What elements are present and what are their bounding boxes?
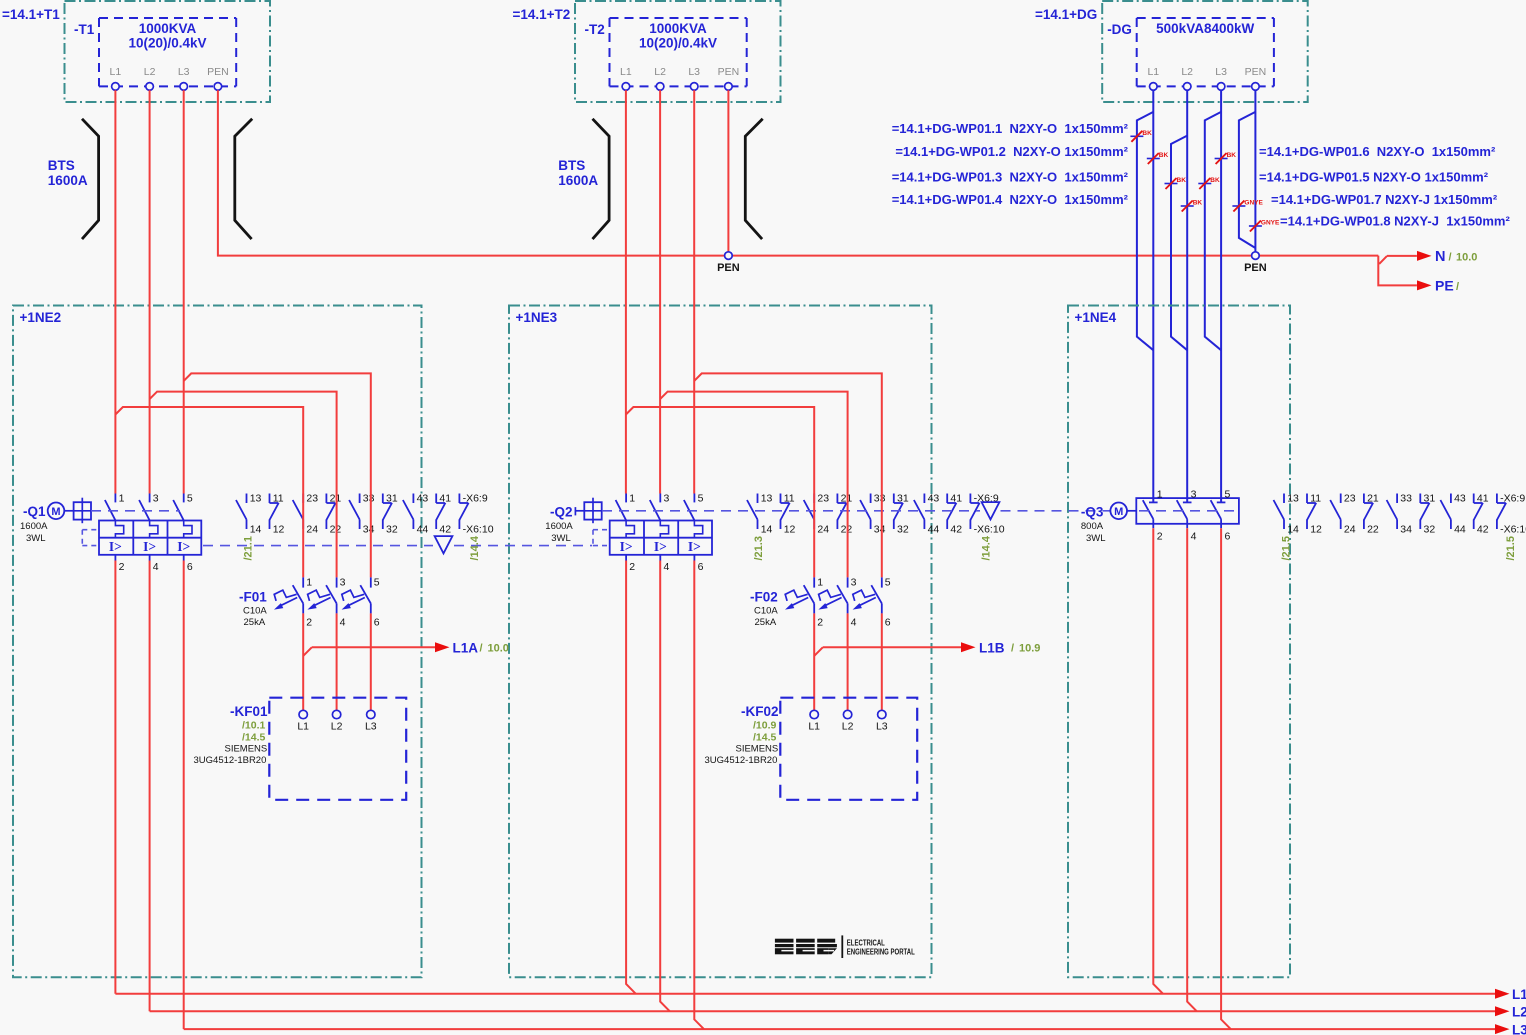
terminal: [299, 710, 307, 718]
aux contact 21/22: [325, 494, 327, 504]
svg-text:3WL: 3WL: [1086, 533, 1106, 544]
svg-text:14: 14: [250, 524, 262, 536]
svg-text:34: 34: [874, 524, 886, 536]
aux contact 11/12: [1306, 494, 1308, 504]
cable mark WP01.1 BK: [1147, 158, 1160, 160]
svg-text:/14.5: /14.5: [242, 732, 266, 744]
wire to N arrow: [1387, 255, 1417, 257]
svg-text:4: 4: [340, 617, 346, 629]
svg-text:12: 12: [273, 524, 285, 536]
svg-text:/14.5: /14.5: [753, 732, 777, 744]
svg-text:SIEMENS: SIEMENS: [736, 744, 779, 755]
svg-text:L1: L1: [110, 66, 122, 78]
svg-text:1: 1: [629, 493, 635, 505]
svg-text:34: 34: [363, 524, 375, 536]
svg-text:BK: BK: [1177, 177, 1187, 184]
svg-text:3WL: 3WL: [551, 533, 571, 544]
svg-text:GNYE: GNYE: [1261, 220, 1280, 227]
aux contact 23/24: [813, 494, 815, 504]
wire tap L1B: [814, 647, 823, 656]
svg-text:25kA: 25kA: [244, 617, 266, 628]
aux contact 23/24: [302, 494, 304, 504]
svg-text:/: /: [1456, 281, 1459, 293]
svg-text:1: 1: [817, 577, 823, 589]
svg-text:L1: L1: [297, 721, 309, 733]
motor drive M Q3: [1110, 503, 1127, 520]
svg-text:+1NE2: +1NE2: [20, 310, 62, 325]
aux contact 23/24: [1340, 494, 1342, 504]
aux contact 33/34: [1396, 494, 1398, 504]
svg-text:-X6:10: -X6:10: [1500, 524, 1526, 536]
wire Q2 pole2 to L1 bus: [626, 561, 636, 994]
trip dashed line Q2 to Q3: [602, 510, 980, 512]
svg-text:-F02: -F02: [750, 590, 778, 605]
wire Q3 pole6 to L3 bus: [1221, 528, 1231, 1029]
svg-text:3: 3: [1191, 489, 1197, 501]
svg-text:L2: L2: [144, 66, 156, 78]
svg-text:PEN: PEN: [717, 262, 740, 274]
svg-text:-Q2: -Q2: [550, 505, 573, 520]
svg-text:1: 1: [306, 577, 312, 589]
bus L3: [184, 1028, 1495, 1030]
svg-text:L3: L3: [688, 66, 700, 78]
svg-text:-X6:10: -X6:10: [463, 524, 494, 536]
svg-text:5: 5: [1225, 489, 1231, 501]
svg-text:22: 22: [330, 524, 342, 536]
svg-text:BTS: BTS: [558, 158, 585, 173]
svg-text:4: 4: [664, 561, 670, 573]
arrow L2: [1495, 1006, 1510, 1016]
svg-text:PEN: PEN: [718, 66, 740, 78]
bus L2: [150, 1010, 1495, 1012]
cable mark WP01.5 BK: [1198, 183, 1211, 185]
svg-text:12: 12: [784, 524, 796, 536]
svg-text:/: /: [1011, 643, 1014, 655]
breaker pole: [813, 577, 815, 587]
svg-text:BK: BK: [1193, 200, 1203, 207]
arrow L1: [1495, 989, 1510, 999]
svg-text:-X6:9: -X6:9: [1500, 493, 1525, 505]
svg-text:=14.1+DG-WP01.8 N2XY-J 1x150m: =14.1+DG-WP01.8 N2XY-J 1x150mm²: [1280, 214, 1510, 229]
svg-text:3: 3: [851, 577, 857, 589]
svg-text:24: 24: [1344, 524, 1356, 536]
svg-text:/14.4: /14.4: [981, 535, 993, 560]
svg-text:/21.5: /21.5: [1281, 536, 1293, 560]
svg-text:PEN: PEN: [1245, 66, 1267, 78]
panel +1NE4: [1068, 306, 1290, 978]
breaker pole: [370, 577, 372, 587]
svg-text:-T2: -T2: [585, 22, 605, 37]
wire N branch diagonal: [1379, 256, 1387, 264]
svg-text:L2: L2: [654, 66, 666, 78]
wire DG PEN parallel branch: [1239, 112, 1256, 248]
cable mark WP01.2 BK: [1130, 135, 1143, 137]
svg-text:2: 2: [306, 617, 312, 629]
aux contact 31/32: [1419, 494, 1421, 504]
svg-text:/21.5: /21.5: [1505, 536, 1517, 560]
aux contact 21/22: [836, 494, 838, 504]
svg-text:6: 6: [698, 561, 704, 573]
svg-text:L1: L1: [1512, 987, 1526, 1002]
terminal: [843, 710, 851, 718]
aux contact 13/14: [1283, 494, 1285, 504]
svg-text:4: 4: [851, 617, 857, 629]
svg-text:41: 41: [1477, 493, 1489, 505]
svg-text:24: 24: [817, 524, 829, 536]
trip dashed inside Q3: [1139, 510, 1239, 512]
svg-text:11: 11: [273, 493, 284, 505]
svg-text:-Q3: -Q3: [1081, 505, 1104, 520]
aux contact 13/14: [246, 494, 248, 504]
svg-text:L1B: L1B: [979, 641, 1005, 656]
svg-text:25kA: 25kA: [755, 617, 777, 628]
svg-text:L1A: L1A: [453, 641, 479, 656]
svg-text:23: 23: [817, 493, 829, 505]
wire Q1 pole4 to L2 bus: [149, 561, 151, 1012]
svg-text:33: 33: [1400, 493, 1412, 505]
svg-text:C10A: C10A: [243, 606, 267, 617]
Q3 pole 5/6: [1217, 501, 1226, 503]
svg-text:42: 42: [439, 524, 451, 536]
wires F01 to KF01: [302, 613, 304, 710]
svg-text:6: 6: [187, 561, 193, 573]
busbar trunking BTS1 1600A: [82, 119, 99, 239]
aux contact 41/42: [1473, 494, 1475, 504]
svg-text:BTS: BTS: [48, 158, 75, 173]
Q3 pole 1/2: [1149, 501, 1158, 503]
cable mark WP01.8 GNYE: [1249, 225, 1262, 227]
cable mark WP01.3 BK: [1181, 205, 1194, 207]
svg-text:500kVA8400kW: 500kVA8400kW: [1156, 21, 1254, 36]
svg-text:21: 21: [1367, 493, 1379, 505]
terminal: [878, 710, 886, 718]
cable mark WP01.7 GNYE: [1232, 205, 1245, 207]
wire tap L1A: [303, 647, 312, 656]
trip transfer symbol (nabla) NE2: [435, 536, 453, 553]
svg-text:I>: I>: [688, 539, 701, 554]
svg-text:L3: L3: [365, 721, 377, 733]
aux contact 13/14: [757, 494, 759, 504]
arrow N: [1417, 251, 1432, 261]
trip transfer symbol (nabla) NE3: [982, 502, 1000, 519]
wire DG L2 parallel branch: [1171, 136, 1187, 351]
svg-text:10(20)/0.4kV: 10(20)/0.4kV: [639, 36, 717, 51]
Q3 pole 3/4: [1183, 501, 1192, 503]
wire T1 PEN down and N bus: [218, 90, 1378, 255]
svg-text:L2: L2: [1512, 1005, 1526, 1020]
svg-text:5: 5: [187, 493, 193, 505]
wire Q3 pole2 to L1 bus: [1153, 528, 1163, 994]
aux contact -X6:9/-X6:10: [458, 494, 460, 504]
svg-text:/14.4: /14.4: [469, 535, 481, 560]
svg-text:2: 2: [119, 561, 125, 573]
svg-text:1600A: 1600A: [558, 173, 598, 188]
wire DG L3 main: [1220, 90, 1222, 502]
svg-text:I>: I>: [620, 539, 633, 554]
svg-text:5: 5: [885, 577, 891, 589]
svg-text:3: 3: [664, 493, 670, 505]
svg-text:-X6:9: -X6:9: [463, 493, 488, 505]
breaker pole: [336, 577, 338, 587]
svg-text:44: 44: [928, 524, 940, 536]
aux contact 31/32: [893, 494, 895, 504]
svg-text:=14.1+DG-WP01.5 N2XY-O 1x150mm: =14.1+DG-WP01.5 N2XY-O 1x150mm²: [1259, 170, 1489, 185]
arrow L3: [1495, 1024, 1510, 1034]
breaker pole: [302, 577, 304, 587]
svg-text:L3: L3: [876, 721, 888, 733]
svg-text:3WL: 3WL: [26, 533, 46, 544]
arrow L1A: [435, 642, 450, 652]
svg-text:23: 23: [306, 493, 318, 505]
svg-text:3: 3: [153, 493, 159, 505]
svg-text:I>: I>: [654, 539, 667, 554]
svg-text:L1: L1: [808, 721, 820, 733]
aux contact 11/12: [269, 494, 271, 504]
svg-text:1: 1: [1157, 489, 1163, 501]
svg-text:ENGINEERING PORTAL: ENGINEERING PORTAL: [847, 946, 915, 956]
svg-text:=14.1+DG-WP01.4 N2XY-O 1x150: =14.1+DG-WP01.4 N2XY-O 1x150mm²: [892, 192, 1129, 207]
circuit breaker Q3 800A 3WL: [1136, 498, 1239, 524]
svg-text:I>: I>: [177, 539, 190, 554]
aux contact 11/12: [780, 494, 782, 504]
svg-text:M: M: [1114, 506, 1123, 518]
svg-text:10.0: 10.0: [1456, 252, 1477, 264]
svg-text:21: 21: [841, 493, 853, 505]
svg-text:-X6:10: -X6:10: [974, 524, 1005, 536]
svg-text:+1NE3: +1NE3: [516, 310, 558, 325]
svg-text:BK: BK: [1159, 152, 1169, 159]
aux contact 33/34: [870, 494, 872, 504]
wire Q3 pole4 to L2 bus: [1187, 528, 1197, 1011]
cable mark WP01.4 BK: [1165, 183, 1178, 185]
svg-text:=14.1+T2: =14.1+T2: [513, 7, 571, 22]
breaker pole: [847, 577, 849, 587]
node PEN (T2): [725, 252, 733, 260]
svg-text:21: 21: [330, 493, 342, 505]
wire Q2 pole6 to L3 bus: [694, 561, 704, 1030]
svg-text:3UG4512-1BR20: 3UG4512-1BR20: [194, 755, 267, 766]
svg-text:42: 42: [1477, 524, 1489, 536]
terminal: [367, 710, 375, 718]
svg-text:=14.1+DG-WP01.7 N2XY-J 1x150mm: =14.1+DG-WP01.7 N2XY-J 1x150mm²: [1271, 192, 1498, 207]
svg-text:BK: BK: [1210, 177, 1220, 184]
svg-text:10.9: 10.9: [1019, 643, 1040, 655]
svg-text:33: 33: [874, 493, 886, 505]
wire Q1 pole2 to L1 bus: [114, 561, 116, 994]
wire DG PEN main: [1254, 90, 1256, 252]
trip dashed line Q1: [91, 510, 180, 512]
svg-text:PEN: PEN: [1244, 262, 1267, 274]
svg-text:23: 23: [1344, 493, 1356, 505]
aux contact 33/34: [359, 494, 361, 504]
svg-text:41: 41: [439, 493, 451, 505]
svg-text:41: 41: [950, 493, 962, 505]
svg-text:31: 31: [1424, 493, 1436, 505]
svg-text:43: 43: [928, 493, 940, 505]
svg-text:800A: 800A: [1081, 521, 1104, 532]
wire Q2 pole4 to L2 bus: [660, 561, 670, 1012]
svg-text:PEN: PEN: [207, 66, 229, 78]
wire T2 PEN down: [727, 90, 729, 255]
svg-text:/: /: [1449, 252, 1452, 264]
svg-text:2: 2: [817, 617, 823, 629]
svg-text:32: 32: [1424, 524, 1436, 536]
svg-text:L3: L3: [178, 66, 190, 78]
wire DG L2 main: [1186, 90, 1188, 502]
svg-text:4: 4: [153, 561, 159, 573]
svg-text:C10A: C10A: [754, 606, 778, 617]
svg-text:3UG4512-1BR20: 3UG4512-1BR20: [705, 755, 778, 766]
svg-text:13: 13: [1287, 493, 1299, 505]
svg-text:22: 22: [1367, 524, 1379, 536]
wire Q1 pole6 to L3 bus: [183, 561, 185, 1030]
svg-text:13: 13: [250, 493, 262, 505]
svg-text:1: 1: [119, 493, 125, 505]
arrow L1B: [961, 642, 976, 652]
wires F02 to KF02: [813, 613, 815, 710]
svg-text:33: 33: [363, 493, 375, 505]
svg-text:L3: L3: [1512, 1023, 1526, 1035]
svg-text:SIEMENS: SIEMENS: [225, 744, 268, 755]
svg-text:/21.1: /21.1: [243, 536, 255, 560]
svg-text:L2: L2: [1181, 66, 1193, 78]
aux contact 41/42: [946, 494, 948, 504]
svg-text:6: 6: [374, 617, 380, 629]
svg-text:GNYE: GNYE: [1244, 200, 1263, 207]
svg-text:BK: BK: [1142, 130, 1152, 137]
terminal: [810, 710, 818, 718]
svg-text:31: 31: [897, 493, 909, 505]
svg-text:/10.9: /10.9: [753, 720, 777, 732]
svg-text:L1: L1: [620, 66, 632, 78]
svg-text:13: 13: [761, 493, 773, 505]
svg-text:=14.1+T1: =14.1+T1: [2, 7, 60, 22]
aux contact -X6:9/-X6:10: [1496, 494, 1498, 504]
svg-text:L3: L3: [1215, 66, 1227, 78]
svg-text:I>: I>: [143, 539, 156, 554]
svg-text:43: 43: [1454, 493, 1466, 505]
svg-text:=14.1+DG-WP01.1 N2XY-O 1x150: =14.1+DG-WP01.1 N2XY-O 1x150mm²: [892, 121, 1129, 136]
svg-text:22: 22: [841, 524, 853, 536]
svg-text:-DG: -DG: [1107, 22, 1132, 37]
svg-text:-Q1: -Q1: [23, 504, 46, 519]
wires T2 to Q2 with branches to F02: [625, 90, 627, 493]
aux contact 31/32: [382, 494, 384, 504]
bus L1: [115, 993, 1495, 995]
svg-text:32: 32: [386, 524, 398, 536]
svg-text:14: 14: [761, 524, 773, 536]
svg-text:31: 31: [386, 493, 398, 505]
svg-text:1000KVA: 1000KVA: [139, 21, 197, 36]
svg-text:11: 11: [1310, 493, 1321, 505]
svg-text:/: /: [480, 643, 483, 655]
svg-text:5: 5: [698, 493, 704, 505]
svg-text:BK: BK: [1227, 152, 1237, 159]
svg-text:1600A: 1600A: [48, 173, 88, 188]
wires T1 to Q1 with branches to F01: [114, 90, 116, 493]
svg-text:6: 6: [1225, 531, 1231, 543]
svg-text:=14.1+DG: =14.1+DG: [1035, 7, 1097, 22]
svg-text:14: 14: [1287, 524, 1299, 536]
svg-text:1000KVA: 1000KVA: [649, 21, 707, 36]
svg-text:2: 2: [1157, 531, 1163, 543]
arrow PE: [1417, 280, 1432, 290]
aux contact 41/42: [435, 494, 437, 504]
aux contact 21/22: [1363, 494, 1365, 504]
cable mark WP01.6 BK: [1215, 158, 1228, 160]
svg-text:PE: PE: [1435, 278, 1454, 294]
panel +1NE3: [509, 306, 932, 978]
svg-text:44: 44: [1454, 524, 1466, 536]
trip dashed line Q1 releases to Q2: [203, 545, 433, 547]
svg-text:I>: I>: [109, 539, 122, 554]
svg-text:M: M: [51, 506, 60, 518]
svg-text:=14.1+DG-WP01.2 N2XY-O 1x150m: =14.1+DG-WP01.2 N2XY-O 1x150mm²: [895, 144, 1128, 159]
svg-text:10.0: 10.0: [488, 643, 509, 655]
busbar trunking BTS2 1600A: [593, 119, 610, 239]
wire DG L1 main: [1152, 90, 1154, 502]
svg-text:1600A: 1600A: [545, 521, 573, 532]
svg-text:4: 4: [1191, 531, 1197, 543]
svg-text:-KF02: -KF02: [741, 704, 779, 719]
svg-text:L2: L2: [842, 721, 854, 733]
svg-text:12: 12: [1310, 524, 1322, 536]
wire DG L1 parallel branch: [1137, 112, 1153, 350]
monitoring relay KF01 SIEMENS 3UG4512-1BR20: [269, 698, 406, 800]
svg-text:43: 43: [417, 493, 429, 505]
svg-text:44: 44: [417, 524, 429, 536]
node PEN (DG): [1252, 252, 1260, 260]
svg-text:32: 32: [897, 524, 909, 536]
breaker pole: [881, 577, 883, 587]
aux contact 43/44: [412, 494, 414, 504]
svg-text:=14.1+DG-WP01.3 N2XY-O 1x150: =14.1+DG-WP01.3 N2XY-O 1x150mm²: [892, 170, 1129, 185]
svg-text:6: 6: [885, 617, 891, 629]
svg-text:42: 42: [950, 524, 962, 536]
terminal: [332, 710, 340, 718]
svg-text:/10.1: /10.1: [242, 720, 266, 732]
svg-text:34: 34: [1400, 524, 1412, 536]
EEP logo: [775, 939, 794, 943]
svg-text:N: N: [1435, 249, 1445, 265]
svg-text:2: 2: [629, 561, 635, 573]
svg-text:+1NE4: +1NE4: [1075, 310, 1117, 325]
svg-text:-F01: -F01: [239, 590, 267, 605]
svg-text:=14.1+DG-WP01.6 N2XY-O 1x150: =14.1+DG-WP01.6 N2XY-O 1x150mm²: [1259, 144, 1496, 159]
svg-text:10(20)/0.4kV: 10(20)/0.4kV: [128, 36, 206, 51]
svg-text:L1: L1: [1147, 66, 1159, 78]
wire DG L3 parallel branch: [1205, 112, 1221, 350]
aux contact 43/44: [923, 494, 925, 504]
svg-text:-T1: -T1: [74, 22, 95, 37]
svg-text:5: 5: [374, 577, 380, 589]
monitoring relay KF02 SIEMENS 3UG4512-1BR20: [780, 698, 917, 800]
panel +1NE2: [13, 306, 422, 978]
svg-text:1600A: 1600A: [20, 521, 48, 532]
wire N tap jog: [1378, 256, 1417, 286]
svg-text:11: 11: [784, 493, 795, 505]
svg-text:/21.3: /21.3: [753, 536, 765, 560]
aux contact 43/44: [1450, 494, 1452, 504]
svg-text:24: 24: [306, 524, 318, 536]
svg-text:3: 3: [340, 577, 346, 589]
aux contact -X6:9/-X6:10: [969, 494, 971, 504]
svg-text:L2: L2: [331, 721, 343, 733]
svg-text:-KF01: -KF01: [230, 704, 268, 719]
